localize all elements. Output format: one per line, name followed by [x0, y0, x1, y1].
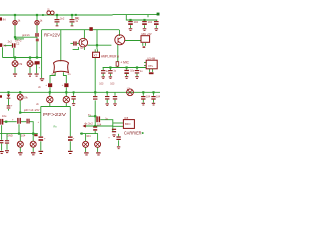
svg-text:A1: A1	[3, 44, 7, 48]
svg-text:U3 4M: U3 4M	[147, 57, 155, 61]
svg-text:104: 104	[97, 123, 102, 126]
svg-text:BFO: BFO	[125, 122, 131, 126]
svg-text:XT: XT	[94, 53, 98, 57]
svg-text:MIC +5V: MIC +5V	[142, 32, 152, 36]
svg-text:2n2: 2n2	[75, 16, 80, 20]
svg-text:pF>2.2V: pF>2.2V	[24, 108, 40, 112]
svg-text:4x 2n2: 4x 2n2	[84, 121, 93, 125]
svg-text:AMPLIFIER A: AMPLIFIER A	[101, 54, 120, 58]
svg-text:IN: IN	[3, 18, 6, 22]
svg-text:PF>22V: PF>22V	[43, 112, 67, 118]
svg-text:IC5: IC5	[124, 116, 129, 120]
svg-text:+ MIC: + MIC	[120, 60, 129, 64]
svg-text:gnd 2x: gnd 2x	[22, 33, 30, 37]
svg-text:10u: 10u	[130, 69, 135, 72]
svg-text:104: 104	[146, 96, 151, 99]
svg-text:104: 104	[21, 134, 26, 138]
svg-text:104: 104	[148, 20, 153, 24]
svg-text:2n2: 2n2	[60, 16, 65, 20]
svg-text:103: 103	[110, 82, 115, 85]
svg-text:..: ..	[114, 121, 116, 124]
svg-text:C2: C2	[16, 42, 20, 46]
svg-text:47k: 47k	[33, 62, 38, 66]
svg-text:XTL: XTL	[148, 64, 154, 68]
svg-text:GND: GND	[7, 134, 13, 138]
svg-text:104: 104	[86, 134, 91, 138]
svg-text:47k: 47k	[18, 62, 23, 66]
svg-text:104: 104	[156, 96, 160, 99]
svg-text:Q1: Q1	[80, 46, 84, 50]
svg-text:2x2: 2x2	[8, 40, 13, 44]
svg-text:10k: 10k	[24, 95, 29, 99]
svg-text:CARRIER: CARRIER	[124, 130, 142, 135]
svg-text:10u: 10u	[2, 114, 7, 118]
svg-text:103: 103	[99, 82, 104, 85]
svg-text:104: 104	[134, 20, 139, 24]
svg-text:RF>22V: RF>22V	[44, 32, 61, 37]
